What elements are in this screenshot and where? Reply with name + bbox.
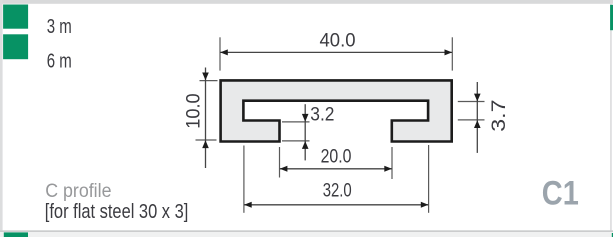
dimension 3.2 arrow up: [302, 141, 309, 149]
dimension 10.0 line: [205, 68, 207, 169]
green marker bottom right corner: [612, 233, 613, 237]
green marker 6m: [3, 34, 28, 59]
dimension 10.0 arrow up: [202, 140, 209, 148]
svg-text:32.0: 32.0: [323, 181, 352, 202]
dimension 40.0 line: [220, 51, 452, 53]
dimension 10.0 arrow down: [202, 73, 209, 81]
green marker bottom left: [4, 232, 28, 237]
dimension 3.2 extension line top: [282, 121, 310, 123]
green marker right edge: [610, 5, 613, 30]
dimension 32.0 extension line left: [243, 146, 245, 213]
C profile cross-section body: [221, 80, 452, 141]
dimension 32.0 line: [244, 204, 428, 206]
svg-text:10.0: 10.0: [184, 93, 205, 129]
dimension 3.7 extension line bottom: [458, 119, 485, 121]
dimension 20.0 extension line right: [391, 147, 393, 179]
svg-text:3.2: 3.2: [310, 104, 334, 125]
dimension 32.0 arrow left: [244, 202, 252, 208]
left border strip: [0, 0, 3, 237]
dimension 20.0 arrow left: [280, 166, 288, 172]
svg-text:3 m: 3 m: [47, 16, 72, 38]
dimension 3.7 arrow up: [474, 120, 481, 128]
right border line: [610, 4, 611, 231]
svg-text:3.7: 3.7: [489, 100, 510, 132]
dimension 20.0 arrow right: [384, 166, 392, 172]
dimension 10.0 extension line top: [200, 80, 218, 82]
svg-text:40.0: 40.0: [320, 30, 356, 51]
green marker 3m: [3, 5, 28, 29]
svg-text:[for flat steel 30 x 3]: [for flat steel 30 x 3]: [45, 201, 189, 223]
dimension 3.2 arrow down: [302, 114, 309, 122]
dimension 20.0 line: [280, 168, 392, 170]
dimension 3.2 line: [304, 104, 306, 160]
dimension 10.0 extension line bottom: [196, 139, 217, 141]
svg-text:20.0: 20.0: [321, 147, 352, 168]
dimension 3.2 extension line bottom: [282, 140, 310, 142]
dimension 40.0 arrow left: [220, 49, 228, 55]
top border strip: [0, 0, 613, 4]
dimension 3.7 extension line top: [458, 101, 485, 103]
dimension 40.0 extension line right: [451, 37, 453, 70]
bottom divider line: [0, 230, 613, 232]
bottom strip: [0, 232, 613, 237]
svg-text:C profile: C profile: [45, 180, 111, 202]
dimension 32.0 arrow right: [421, 202, 429, 208]
dimension 20.0 extension line left: [279, 147, 281, 178]
dimension 3.7 line: [476, 82, 478, 153]
svg-text:6 m: 6 m: [47, 51, 72, 73]
dimension 32.0 extension line right: [428, 145, 430, 213]
svg-text:C1: C1: [542, 174, 579, 212]
dimension 3.7 arrow down: [474, 94, 481, 102]
dimension 40.0 extension line left: [219, 37, 221, 70]
dimension 40.0 arrow right: [445, 49, 453, 55]
